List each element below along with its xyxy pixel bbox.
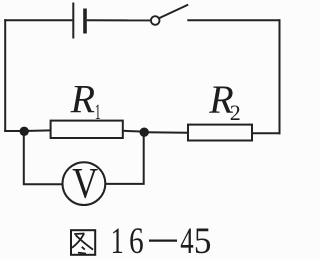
caption TU inner stroke: top horizontal xyxy=(74,233,84,236)
svg-text:1: 1 xyxy=(95,99,101,124)
wire node A to left corner xyxy=(4,130,25,132)
node A junction dot xyxy=(20,127,29,136)
caption TU inner stroke: dot 2 xyxy=(78,253,86,254)
caption TU inner stroke: right-falling na xyxy=(76,235,93,250)
resistor R2 box xyxy=(188,125,252,141)
svg-text:6: 6 xyxy=(129,220,144,259)
wire left vertical xyxy=(4,19,6,132)
voltmeter circle U xyxy=(63,162,106,205)
caption character TU (figure) outer box xyxy=(71,230,95,255)
wire voltmeter branch left vertical xyxy=(24,132,63,184)
svg-text:4: 4 xyxy=(180,220,193,259)
wire R2 to node B xyxy=(146,131,188,134)
svg-text:R: R xyxy=(70,77,95,122)
switch lever (open) xyxy=(159,5,188,19)
resistor R1 box xyxy=(51,121,123,138)
caption TU inner stroke: left-falling pie xyxy=(72,234,84,248)
caption dash xyxy=(149,240,177,242)
wire top-left horizontal xyxy=(4,19,72,21)
svg-text:V: V xyxy=(72,161,98,208)
wire node B to R1 xyxy=(123,130,144,133)
wire voltmeter branch right xyxy=(106,132,144,184)
node B junction dot xyxy=(140,128,149,137)
switch pivot circle S xyxy=(151,16,160,25)
wire switch to top-right corner xyxy=(187,19,280,21)
svg-text:2: 2 xyxy=(230,100,241,125)
wire R1 to node A xyxy=(24,129,51,132)
caption TU inner stroke: dot 1 xyxy=(82,247,85,250)
wire right corner to R2 xyxy=(252,132,281,134)
svg-text:1: 1 xyxy=(111,220,124,259)
wire battery to switch xyxy=(87,19,151,21)
battery short plate (-) xyxy=(83,9,87,34)
wire right vertical xyxy=(279,19,281,134)
battery long plate (+) xyxy=(72,3,74,39)
svg-text:5: 5 xyxy=(194,220,212,259)
